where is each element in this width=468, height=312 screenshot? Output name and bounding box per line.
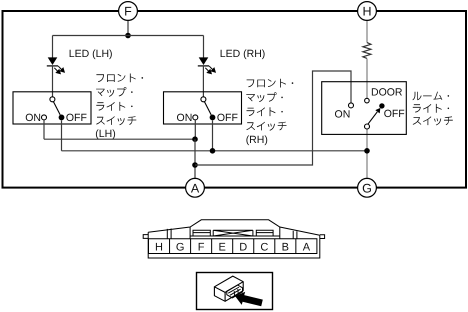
switch LH lever [53, 102, 60, 115]
svg-text:ON: ON [177, 112, 193, 124]
svg-text:B: B [282, 241, 289, 253]
connector location icon box [197, 273, 273, 310]
raised section side edges [190, 227, 280, 239]
junction: F node [125, 33, 131, 39]
connector pin F [119, 2, 138, 21]
connector pin A [186, 178, 205, 197]
svg-text:OFF: OFF [66, 112, 87, 124]
room light unit outline box [3, 11, 467, 188]
wire: drop to LED (LH) [52, 36, 54, 58]
wire: pin H down to resistor [366, 20, 368, 42]
wire: switch common to junction [366, 129, 368, 151]
front map light switch (RH) box [164, 92, 242, 124]
wire: drop to LED (RH) [203, 36, 205, 58]
resistor (room light bulb dropping resistor) [363, 43, 371, 59]
svg-text:G: G [362, 181, 372, 195]
room switch lever with arrow [368, 108, 381, 124]
svg-text:OFF: OFF [217, 112, 238, 124]
room switch ON terminal [349, 103, 354, 108]
svg-text:(RH): (RH) [246, 134, 268, 146]
connector pin H [358, 2, 377, 21]
junction: OFF net at RH [210, 148, 216, 154]
svg-text:LED (LH): LED (LH) [69, 48, 113, 60]
detail ticks right [293, 231, 297, 239]
detail ticks left [167, 229, 171, 239]
label: front map light switch (LH) Japanese [95, 74, 143, 140]
wire: LH ON terminal down [43, 120, 45, 139]
wire: ON net down to pin A [194, 139, 196, 178]
svg-text:A: A [303, 241, 311, 253]
junction: ON net [192, 136, 198, 142]
room switch DOOR terminal [365, 98, 370, 103]
svg-text:ON: ON [335, 108, 351, 120]
housing right tab [320, 235, 325, 239]
housing tray outline [148, 232, 320, 258]
svg-text:DOOR: DOOR [371, 86, 403, 98]
wire: RH ON terminal down [194, 120, 196, 139]
switch RH common terminal [201, 97, 206, 102]
svg-text:(LH): (LH) [95, 128, 115, 140]
connector pin G [358, 178, 377, 197]
wire: OFF net horizontal [62, 150, 368, 152]
location arrow [235, 292, 263, 307]
svg-text:H: H [155, 241, 163, 253]
wire: LED (RH) to switch common [202, 66, 204, 97]
switch LH ON terminal [42, 115, 47, 120]
pin cavity row [149, 239, 317, 254]
LED (RH) [198, 57, 216, 73]
relay unit 3D block [214, 276, 243, 301]
front map light switch (LH) box [13, 92, 91, 124]
housing top profile [148, 220, 320, 236]
latch rectangle right [256, 230, 273, 236]
svg-text:ON: ON [25, 112, 41, 124]
room switch common terminal [365, 124, 370, 129]
connector housing (pin face view) [143, 220, 324, 258]
wire: RH OFF terminal down [212, 120, 214, 151]
switch RH OFF terminal [210, 115, 216, 121]
svg-text:G: G [176, 241, 185, 253]
svg-text:D: D [239, 241, 247, 253]
wire: junction down to pin G [366, 151, 368, 179]
wire: ON net horizontal [44, 138, 195, 140]
switch LH common terminal [50, 97, 55, 102]
svg-text:A: A [191, 181, 200, 195]
wire: A tap to room switch ON terminal [195, 71, 351, 165]
crossed lock box [213, 230, 253, 236]
wire: resistor to DOOR terminal [366, 59, 368, 99]
junction: OFF net at G wire [364, 148, 370, 154]
switch RH ON terminal [193, 115, 198, 120]
label: front map light switch (RH) Japanese [246, 79, 294, 146]
svg-text:LED (RH): LED (RH) [220, 48, 266, 60]
svg-text:OFF: OFF [384, 108, 405, 120]
svg-text:F: F [198, 241, 205, 253]
svg-text:F: F [124, 5, 132, 19]
label: room light switch Japanese [412, 92, 452, 126]
wire: pin F stem [127, 20, 129, 35]
wire: LED supply bus [53, 35, 204, 37]
room switch OFF terminal [379, 103, 384, 108]
housing left tab [143, 235, 148, 239]
room light switch (DOOR) box [322, 82, 407, 135]
wire: LED (LH) to switch common [52, 66, 54, 97]
switch LH OFF terminal [59, 115, 65, 121]
latch rectangle left [193, 230, 210, 236]
connector socket detail [227, 285, 243, 298]
switch RH lever [204, 102, 211, 115]
svg-text:H: H [362, 5, 371, 19]
junction: A node tap [192, 162, 198, 168]
wire: LH OFF terminal down [61, 120, 63, 151]
LED (LH) [47, 57, 65, 73]
svg-text:E: E [219, 241, 226, 253]
svg-text:C: C [260, 241, 268, 253]
